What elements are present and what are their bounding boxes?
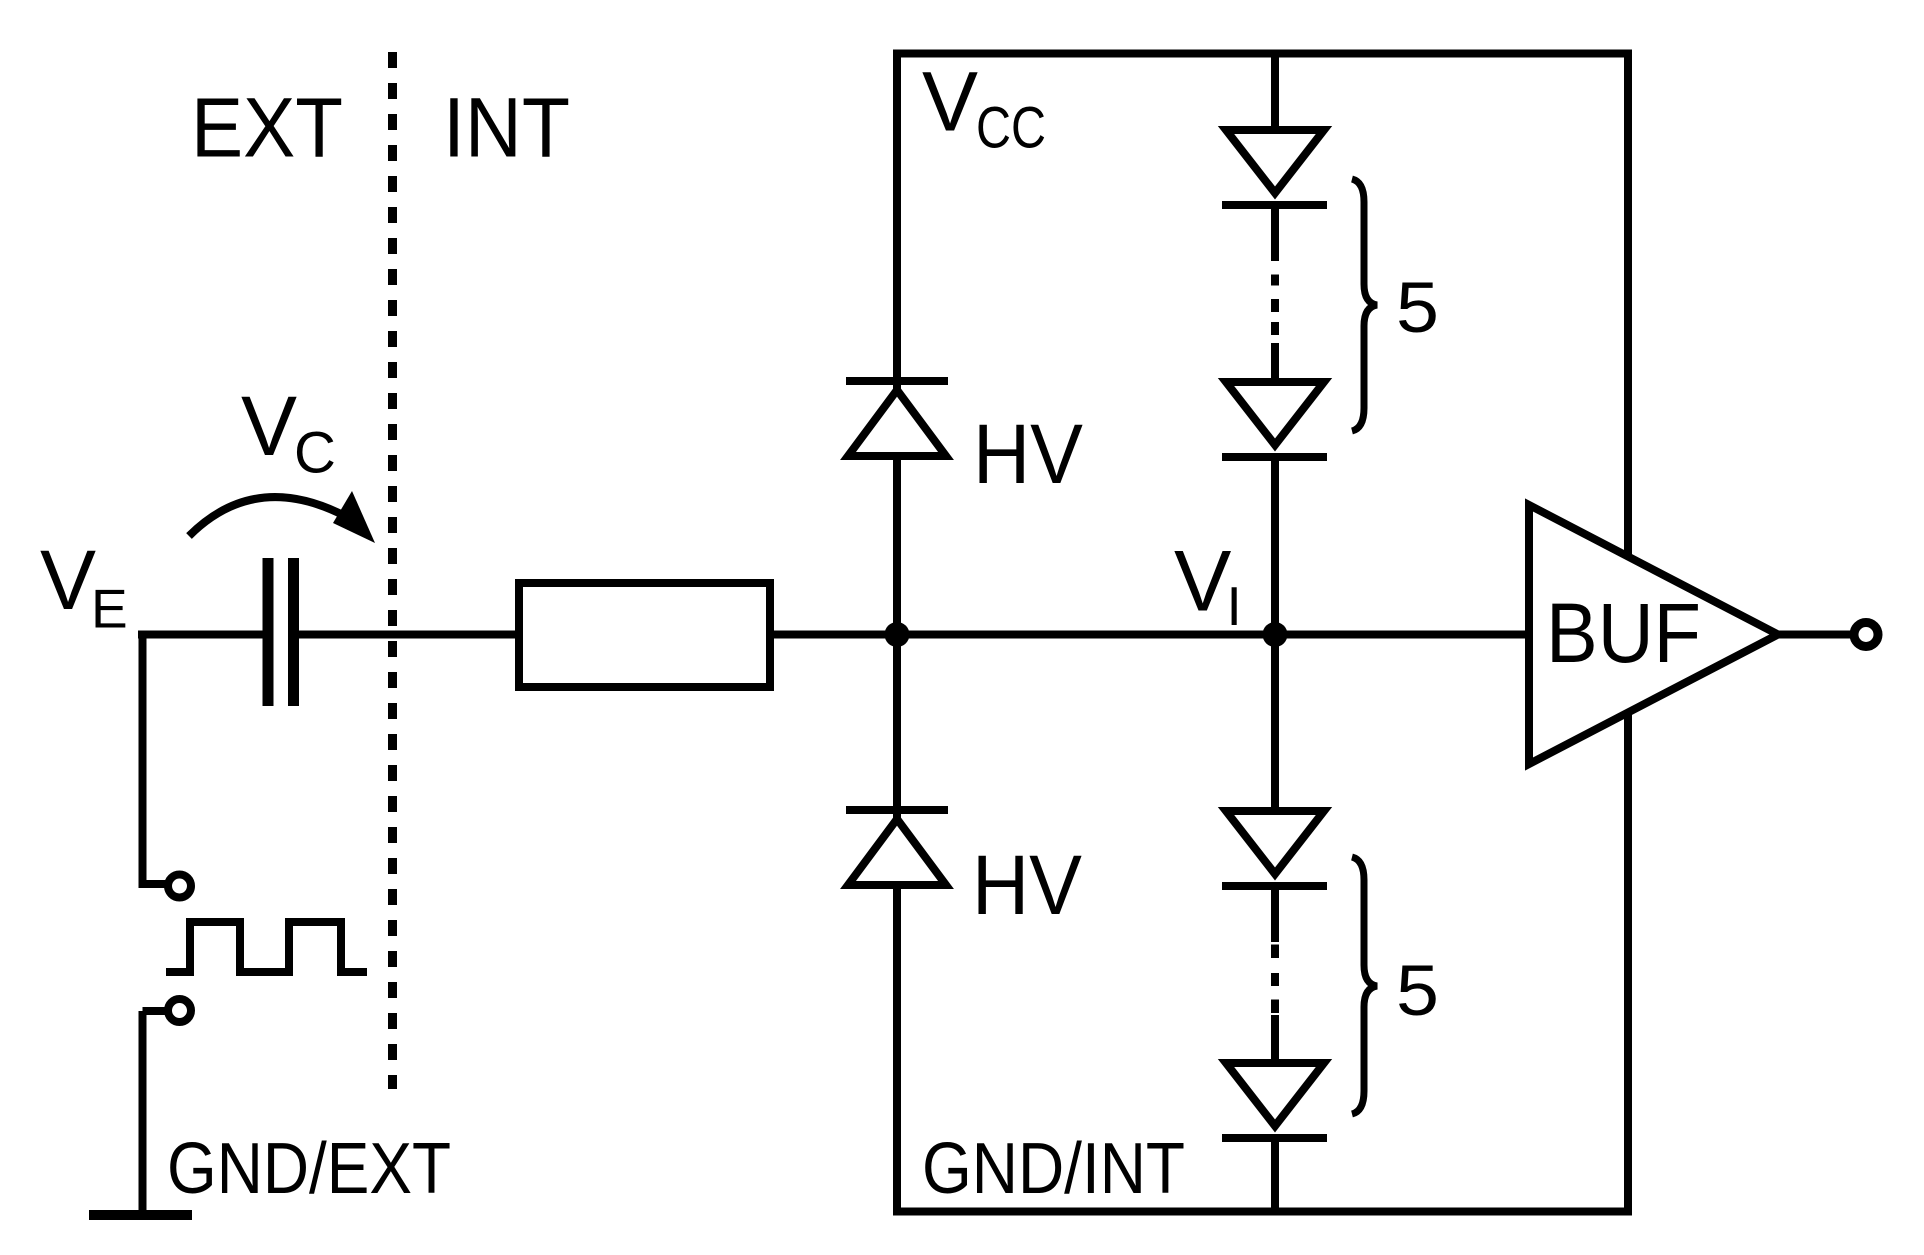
svg-text:GND/INT: GND/INT: [922, 1129, 1185, 1209]
diode D2 (triangle): [1226, 382, 1324, 445]
wire from switch terminal 2: [143, 1007, 167, 1015]
wire VE down branch: [139, 635, 147, 885]
brace string 2: [1352, 857, 1377, 1114]
capacitor C (plates): [263, 558, 274, 706]
diode D3 (triangle): [1226, 811, 1324, 874]
svg-text:HV: HV: [972, 838, 1082, 932]
ellipsis dots string 2: [1271, 945, 1279, 959]
wire D3 to dots: [1271, 886, 1279, 942]
HV diode 2 (triangle): [848, 819, 946, 885]
svg-text:V: V: [40, 533, 96, 627]
svg-text:5: 5: [1396, 269, 1439, 348]
output terminal circle: [1854, 623, 1878, 647]
VC arrow: [189, 497, 345, 536]
switch terminal circle 1: [168, 875, 191, 898]
boundary dashed line EXT/INT: [388, 52, 397, 1089]
HV diode 2 (cathode bar): [846, 806, 948, 814]
ellipsis dots string 1: [1271, 275, 1279, 286]
brace string 1: [1352, 179, 1377, 431]
wire HV diode 1 to node A: [893, 456, 901, 635]
wire resistor to buffer input: [770, 631, 1529, 639]
HV diode 1 (triangle): [848, 390, 946, 456]
wire VCC rail to HV diode 1: [893, 53, 901, 381]
svg-text:5: 5: [1396, 952, 1439, 1031]
wire VCC rail to diode string 1: [1271, 53, 1279, 132]
wire D1 to dots: [1271, 205, 1279, 261]
svg-text:CC: CC: [976, 96, 1046, 161]
IC boundary box: [897, 54, 1628, 1212]
wire D4 to GND rail: [1271, 1138, 1279, 1211]
resistor R: [519, 583, 770, 687]
wire VE to capacitor: [138, 631, 263, 639]
node VI junction dot: [1263, 622, 1288, 647]
wire capacitor to resistor: [299, 631, 519, 639]
ground GND/EXT bar: [89, 1210, 192, 1220]
wire to switch terminal 1: [139, 880, 167, 888]
wire D2 to node VI: [1271, 457, 1279, 635]
svg-text:INT: INT: [443, 81, 570, 175]
wire down to ground: [139, 1011, 147, 1215]
diode D2 (cathode bar): [1222, 453, 1327, 461]
svg-text:C: C: [294, 421, 336, 486]
wire node VI to diode D3: [1271, 635, 1279, 813]
svg-text:HV: HV: [973, 407, 1083, 501]
wire dots to diode D4: [1271, 1015, 1279, 1065]
svg-text:EXT: EXT: [191, 81, 343, 175]
wire buffer output: [1778, 631, 1852, 639]
svg-text:I: I: [1227, 575, 1242, 637]
svg-text:V: V: [1174, 534, 1231, 630]
diode D3 (cathode bar): [1222, 882, 1327, 890]
diode D4 (cathode bar): [1222, 1134, 1327, 1142]
svg-text:E: E: [91, 578, 128, 640]
svg-text:V: V: [241, 379, 297, 473]
switch terminal circle 2: [168, 999, 191, 1022]
svg-text:GND/EXT: GND/EXT: [167, 1129, 451, 1209]
HV diode 1 (cathode bar): [846, 377, 948, 385]
svg-text:BUF: BUF: [1546, 586, 1701, 680]
buffer U1 (triangle): [1529, 505, 1778, 764]
diode D1 (triangle): [1226, 130, 1324, 193]
diode D4 (triangle): [1226, 1063, 1324, 1126]
wire HV diode 2 to GND rail: [893, 885, 901, 1211]
wire dots to diode D2: [1271, 343, 1279, 384]
svg-text:V: V: [922, 55, 978, 149]
square wave source symbol: [166, 922, 367, 972]
diode D1 (cathode bar): [1222, 201, 1327, 209]
wire node A to HV diode 2: [893, 635, 901, 810]
node A junction dot: [885, 622, 910, 647]
